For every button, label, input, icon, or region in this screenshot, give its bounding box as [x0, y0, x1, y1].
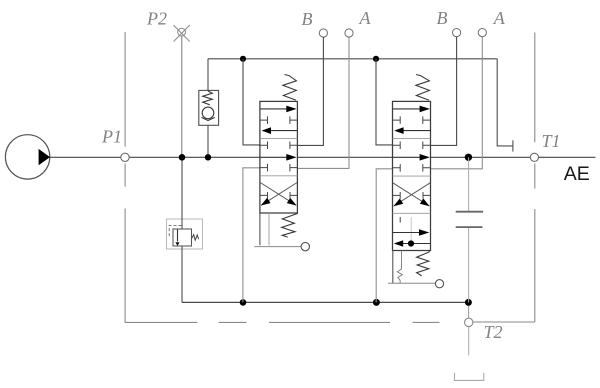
- svg-text:P2: P2: [146, 8, 167, 28]
- svg-text:AE: AE: [564, 163, 590, 185]
- svg-text:T1: T1: [542, 131, 561, 151]
- svg-text:P1: P1: [101, 127, 122, 147]
- svg-text:T2: T2: [484, 322, 503, 342]
- svg-text:A: A: [493, 8, 506, 28]
- svg-text:A: A: [359, 8, 372, 28]
- svg-text:B: B: [437, 8, 448, 28]
- svg-text:B: B: [302, 9, 313, 29]
